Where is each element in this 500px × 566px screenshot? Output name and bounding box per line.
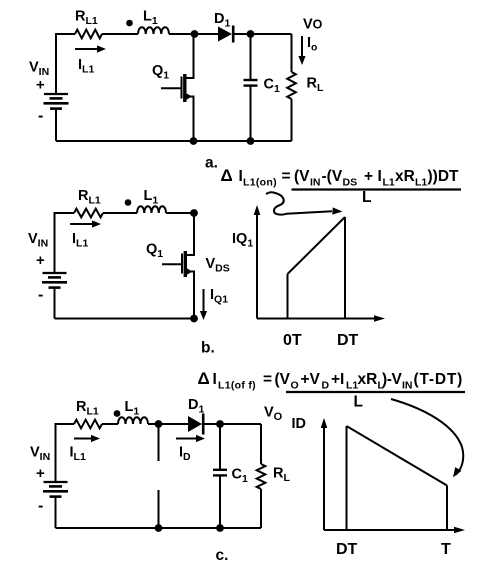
svg-text:L1(of f): L1(of f) (218, 380, 256, 392)
svg-text:ID: ID (292, 416, 307, 432)
svg-text:L: L (354, 394, 363, 411)
svg-text:RL1: RL1 (76, 399, 99, 418)
svg-text:=: = (263, 371, 272, 388)
svg-text:Q1: Q1 (146, 242, 163, 261)
svg-text:IN: IN (310, 177, 321, 189)
svg-text:L1: L1 (125, 399, 140, 418)
svg-text:+I: +I (331, 371, 344, 388)
svg-text:(V: (V (275, 371, 291, 388)
svg-text:+: + (36, 77, 45, 94)
svg-text:-: - (38, 287, 43, 304)
svg-text:(T-DT): (T-DT) (414, 371, 464, 388)
svg-text:RL: RL (273, 466, 290, 485)
svg-text:L: L (362, 189, 371, 206)
svg-text:RL1: RL1 (75, 9, 98, 28)
svg-text:-: - (38, 498, 43, 515)
svg-text:IL1: IL1 (78, 57, 94, 76)
svg-text:+V: +V (301, 371, 321, 388)
svg-text:(V: (V (294, 168, 310, 185)
svg-text:I: I (213, 371, 217, 388)
svg-text:C1: C1 (264, 77, 280, 96)
svg-text:))DT: ))DT (428, 168, 460, 185)
svg-text:D1: D1 (188, 397, 204, 416)
svg-text:D: D (322, 380, 330, 392)
svg-text:0T: 0T (283, 332, 302, 349)
svg-text:DT: DT (336, 541, 358, 558)
svg-text:xR: xR (395, 168, 415, 185)
svg-text:L1: L1 (143, 9, 158, 28)
svg-text:=: = (282, 168, 291, 185)
svg-text:+: + (364, 168, 373, 185)
svg-text:RL1: RL1 (78, 188, 101, 207)
svg-text:IQ1: IQ1 (232, 231, 253, 250)
svg-text:O: O (291, 380, 299, 392)
svg-text:VIN: VIN (29, 60, 49, 79)
svg-text:a.: a. (205, 155, 218, 172)
svg-text:C1: C1 (232, 467, 248, 486)
svg-text:ID: ID (179, 445, 191, 464)
svg-text:IQ1: IQ1 (210, 287, 228, 306)
svg-text:L1: L1 (144, 188, 159, 207)
svg-text:L1: L1 (383, 177, 395, 189)
svg-text:Δ: Δ (198, 369, 210, 388)
svg-text:Io: Io (307, 35, 317, 54)
svg-text:DT: DT (337, 332, 359, 349)
svg-text:VIN: VIN (28, 231, 48, 250)
svg-text:VO: VO (264, 405, 283, 424)
svg-text:VDS: VDS (206, 256, 230, 275)
svg-text:RL: RL (307, 76, 324, 95)
svg-text:Q1: Q1 (152, 63, 169, 82)
svg-text:DS: DS (343, 177, 358, 189)
svg-text:IN: IN (402, 380, 413, 392)
svg-text:L1: L1 (415, 177, 427, 189)
svg-text:IL1: IL1 (72, 231, 88, 250)
svg-text:IL1: IL1 (70, 445, 86, 464)
svg-text:VO: VO (303, 17, 323, 33)
svg-text:b.: b. (201, 340, 215, 357)
svg-text:I: I (378, 168, 382, 185)
svg-text:VIN: VIN (30, 445, 50, 464)
svg-text:T: T (441, 541, 451, 558)
svg-text:-(V: -(V (322, 168, 343, 185)
svg-text:D1: D1 (214, 11, 230, 30)
svg-text:L1(on): L1(on) (243, 177, 277, 189)
svg-text:Δ: Δ (221, 166, 233, 185)
svg-text:c.: c. (216, 547, 229, 564)
svg-text:-: - (38, 108, 43, 125)
svg-text:+: + (36, 465, 45, 482)
svg-text:+: + (36, 252, 45, 269)
svg-text:)-V: )-V (382, 371, 403, 388)
svg-text:xR: xR (358, 371, 378, 388)
